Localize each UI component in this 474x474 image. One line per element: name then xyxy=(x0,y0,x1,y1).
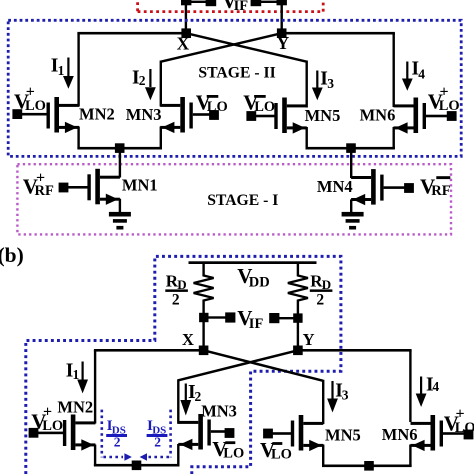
transistor MN6 (mirrored) xyxy=(394,98,427,134)
svg-text:MN3: MN3 xyxy=(201,402,237,421)
svg-text:2: 2 xyxy=(114,435,121,450)
stepped blue dotted outline of (b) xyxy=(26,256,341,474)
wire: diagonal X to MN5 drain xyxy=(186,33,307,62)
wire: MN6 source riser (b) xyxy=(409,445,411,468)
svg-text:+: + xyxy=(440,84,449,101)
wire: right column to Y xyxy=(297,318,299,350)
wire: MN3 gate lead (b) xyxy=(211,430,227,433)
node common source MN2/MN3 xyxy=(115,143,125,153)
svg-text:LO: LO xyxy=(271,447,292,463)
wire: MN6 source riser xyxy=(393,127,395,149)
current I4 arrow (b) xyxy=(420,377,422,395)
node X (b) xyxy=(199,346,209,356)
STAGE-I box (magenta dotted) xyxy=(17,164,451,234)
dotted current arrow left (I_DS/2 into node) xyxy=(103,456,123,459)
wire: MN5 source riser (b) xyxy=(322,445,324,468)
wire: left column to X xyxy=(202,318,204,350)
wire: bottom rail left (b) xyxy=(94,464,180,467)
node common source MN5/MN6 (b) xyxy=(364,461,374,471)
wire: MN3 gate lead xyxy=(193,113,211,116)
svg-text:MN2: MN2 xyxy=(79,104,115,123)
svg-text:2: 2 xyxy=(139,73,146,88)
transistor MN6 (b, mirrored) xyxy=(411,415,444,451)
svg-text:2: 2 xyxy=(172,291,180,308)
terminal square V_IF right xyxy=(269,313,279,323)
node below left resistor xyxy=(199,313,208,322)
svg-text:DD: DD xyxy=(249,274,270,290)
svg-text:MN4: MN4 xyxy=(317,177,353,196)
wire: MN4 gate lead xyxy=(384,186,406,189)
wire: MN6 drain riser xyxy=(393,33,395,107)
node common source MN5/MN6 xyxy=(346,143,356,153)
svg-text:4: 4 xyxy=(432,379,439,394)
svg-text:3: 3 xyxy=(342,388,349,403)
current I1 arrow xyxy=(67,58,69,77)
wire: bottom rail left (MN2-MN3 sources) xyxy=(77,147,162,150)
wire: MN2 gate lead xyxy=(20,113,47,116)
svg-text:X: X xyxy=(182,330,194,349)
wire: left IF horizontal xyxy=(186,1,211,3)
node X xyxy=(181,28,191,38)
wire: MN2 source riser xyxy=(77,127,79,149)
current I3 arrow (b) xyxy=(331,381,333,399)
svg-text:+: + xyxy=(43,404,52,421)
I_DS dotted box left edge xyxy=(101,410,104,458)
wire: top rail left (MN2 drain to X) xyxy=(77,32,187,35)
IF output box (red dotted, cut off at top) xyxy=(138,0,324,12)
terminal square V_LO- (MN5 b) xyxy=(263,429,273,439)
node Y xyxy=(277,28,287,38)
svg-text:LO: LO xyxy=(254,99,275,115)
terminal square V_LO- (MN3 b) xyxy=(225,428,235,438)
terminal square V_IF right xyxy=(251,0,262,6)
current I2 arrow xyxy=(149,69,151,87)
svg-text:+: + xyxy=(26,84,35,101)
I_DS/2 fraction left xyxy=(106,417,127,450)
svg-text:MN5: MN5 xyxy=(305,106,341,125)
svg-text:MN6: MN6 xyxy=(360,105,396,124)
wire: MN1 drain riser xyxy=(119,148,121,178)
ground (MN1) xyxy=(109,212,131,230)
svg-text:4: 4 xyxy=(418,66,425,81)
wire: MN4 drain riser xyxy=(350,148,352,178)
current I1 arrow (b) xyxy=(82,362,84,381)
current I2 arrow (b) xyxy=(185,384,187,401)
svg-text:1: 1 xyxy=(58,63,65,78)
svg-text:RF: RF xyxy=(431,183,450,199)
terminal square V_LO- (MN3) xyxy=(209,110,219,120)
I_DS dotted box right edge xyxy=(169,410,172,458)
wire: right IF column xyxy=(281,0,283,34)
node on right IF wire xyxy=(277,0,287,5)
wire: MN3 drain riser xyxy=(160,61,162,107)
transistor MN3 (b, mirrored) xyxy=(178,414,211,450)
resistor RD/2 right xyxy=(288,263,308,314)
wire: left IF column xyxy=(185,0,187,34)
terminal square V_LO+ (MN6 b) xyxy=(464,430,474,440)
wire: MN2 drain riser xyxy=(77,33,79,107)
transistor MN1 xyxy=(87,169,119,205)
wire: top rail right (b) xyxy=(298,349,412,352)
wire: MN2 drain riser (b) xyxy=(94,350,96,424)
transistor MN2 xyxy=(47,97,80,133)
svg-text:+: + xyxy=(36,170,45,187)
terminal square V_IF left xyxy=(225,312,235,322)
node below right resistor xyxy=(293,313,302,322)
wire: MN6 drain riser (b) xyxy=(409,350,411,422)
wire: MN3 source riser (b) xyxy=(177,444,179,466)
terminal square V_LO+ (MN6) xyxy=(447,111,457,121)
svg-text:Y: Y xyxy=(277,33,290,53)
ground (MN4) xyxy=(342,212,364,230)
wire: bottom rail right (b) xyxy=(322,465,412,468)
wire: MN5 drain riser (b) xyxy=(322,380,324,424)
wire: right IF horizontal xyxy=(256,1,282,3)
wire: MN3 drain riser (b) xyxy=(177,379,179,424)
svg-text:LO: LO xyxy=(223,446,244,462)
wire: V_IF right lead xyxy=(274,317,298,319)
terminal square V_RF- (MN4) xyxy=(404,183,414,193)
terminal square V_IF left xyxy=(206,0,217,6)
node on left IF wire xyxy=(181,0,191,5)
transistor MN3 (mirrored) xyxy=(160,97,193,133)
svg-text:LO: LO xyxy=(207,99,228,115)
dotted current arrow right (I_DS/2 into node) xyxy=(149,456,170,459)
wire: MN1 gate lead xyxy=(66,186,88,189)
wire: diagonal Y to MN3 drain (b) xyxy=(178,350,298,380)
node Y (b) xyxy=(293,346,303,356)
STAGE-II box (blue dotted) xyxy=(8,20,461,156)
wire: MN1 source riser xyxy=(119,199,121,213)
transistor MN2 (b) xyxy=(63,415,95,451)
svg-text:+: + xyxy=(456,405,465,422)
svg-text:X: X xyxy=(177,34,190,54)
svg-text:STAGE - II: STAGE - II xyxy=(198,65,275,82)
terminal square V_LO+ (MN2) xyxy=(12,109,22,119)
wire: MN6 gate lead xyxy=(426,115,448,118)
wire: MN4 source riser xyxy=(350,199,352,212)
transistor MN5 (b) xyxy=(291,415,324,451)
wire: top rail left (b) xyxy=(94,349,204,352)
current I3 arrow xyxy=(316,71,318,89)
svg-text:MN1: MN1 xyxy=(122,176,158,195)
svg-text:MN3: MN3 xyxy=(126,105,162,124)
svg-text:Y: Y xyxy=(303,330,315,349)
wire: MN6 gate lead (b) xyxy=(443,432,465,435)
svg-text:IF: IF xyxy=(249,316,264,332)
wire: MN2 source riser (b) xyxy=(94,445,96,467)
node common source MN2/MN3 (b) xyxy=(132,461,142,471)
wire: diagonal Y to MN3 drain xyxy=(161,33,282,62)
svg-text:2: 2 xyxy=(154,435,161,450)
wire: VDD rail xyxy=(189,261,317,264)
svg-text:3: 3 xyxy=(327,76,334,91)
current I4 arrow xyxy=(406,62,408,80)
wire: bottom rail right (MN5-MN6 sources) xyxy=(306,147,395,150)
wire: top rail right (Y to MN6 drain) xyxy=(281,32,395,35)
svg-text:MN6: MN6 xyxy=(382,425,418,444)
svg-text:STAGE - I: STAGE - I xyxy=(207,192,278,209)
transistor MN4 (mirrored) xyxy=(351,169,384,205)
wire: diagonal X to MN5 drain (b) xyxy=(204,350,324,381)
terminal square V_LO- (MN5) xyxy=(246,111,256,121)
terminal square V_RF+ (MN1) xyxy=(59,183,69,193)
svg-text:IF: IF xyxy=(234,0,249,14)
wire: MN5 source riser xyxy=(306,127,308,149)
svg-text:MN2: MN2 xyxy=(57,398,93,417)
wire: MN3 source riser xyxy=(160,127,162,149)
resistor RD/2 left xyxy=(194,263,214,314)
terminal square V_LO+ (MN2 b) xyxy=(29,428,39,438)
svg-text:2: 2 xyxy=(316,291,324,308)
wire: MN2 gate lead (b) xyxy=(36,432,64,435)
wire: MN5 gate lead (b) xyxy=(271,432,292,435)
transistor MN5 xyxy=(274,98,307,134)
svg-text:MN5: MN5 xyxy=(325,426,361,445)
I_DS/2 fraction right xyxy=(147,417,168,450)
wire: MN5 gate lead xyxy=(254,115,275,118)
wire: V_IF left lead xyxy=(204,316,230,318)
wire: MN5 drain riser xyxy=(306,61,308,108)
svg-text:(b): (b) xyxy=(0,243,24,267)
